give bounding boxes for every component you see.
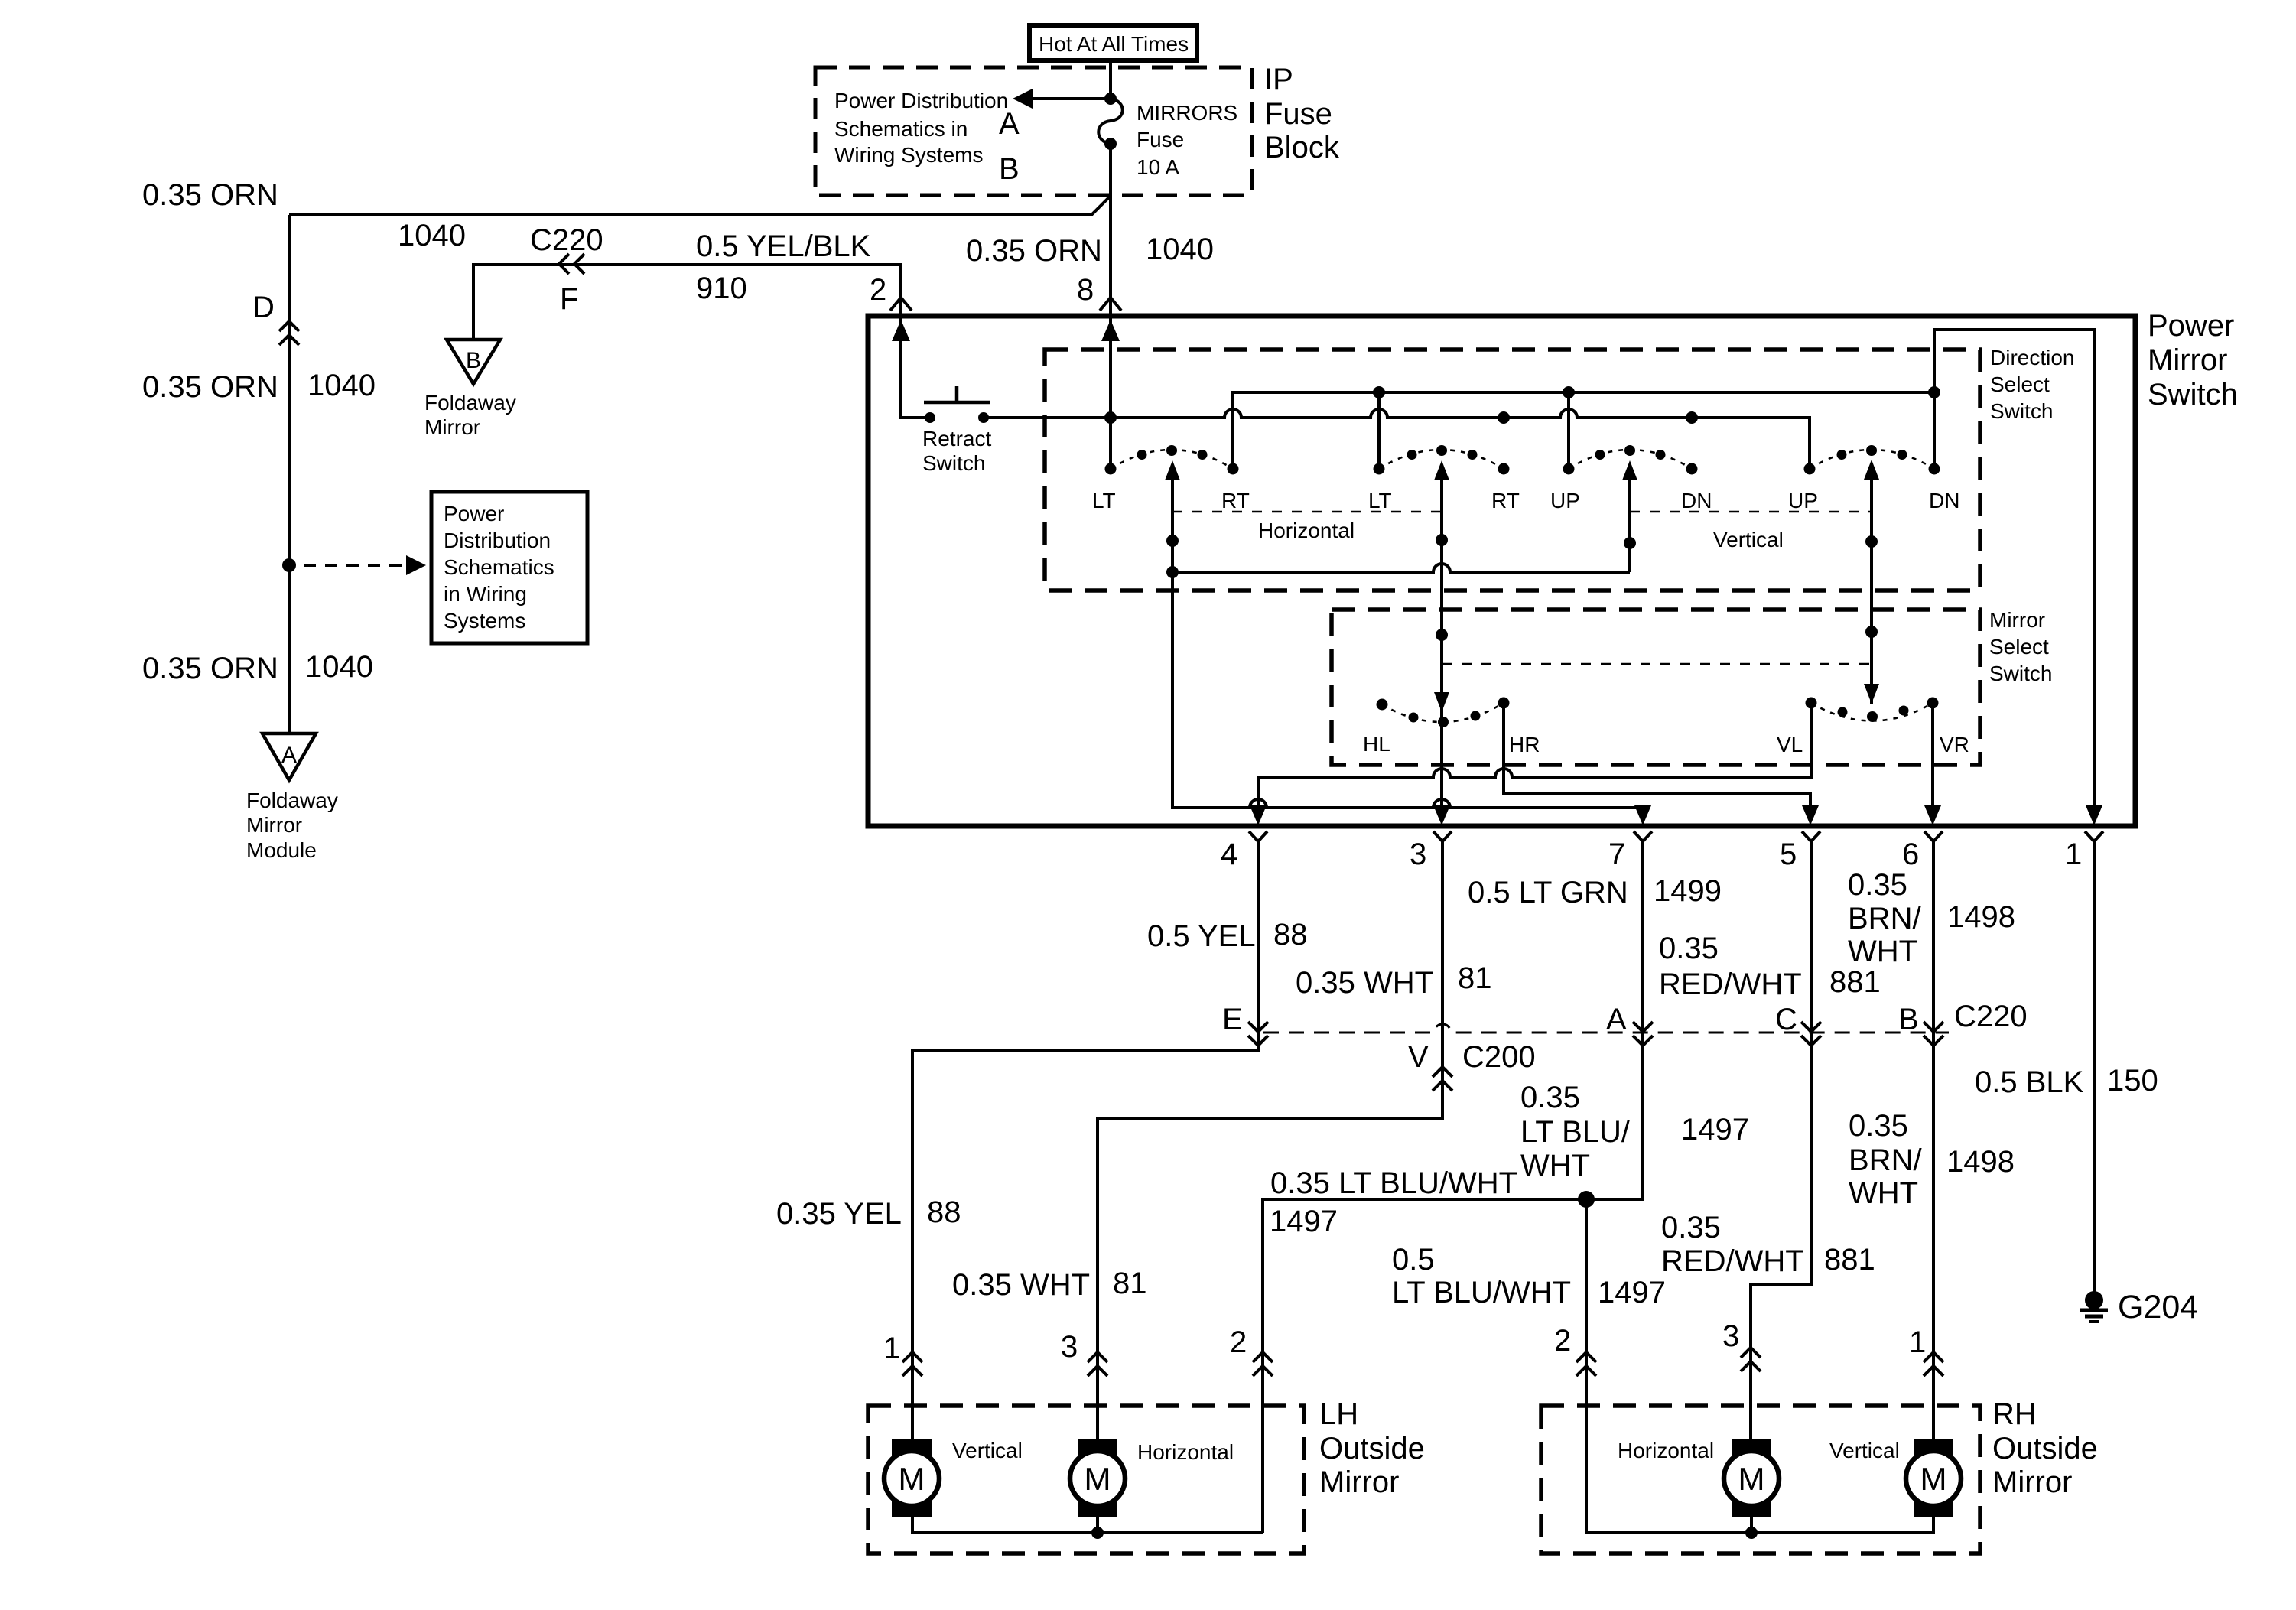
- svg-text:Vertical: Vertical: [1829, 1439, 1900, 1462]
- junction dot RT2 on B+ wire: [1498, 411, 1510, 424]
- svg-text:C220: C220: [1954, 1000, 2028, 1033]
- fuse MIRRORS 10A element (curl): [1098, 99, 1123, 144]
- svg-text:Horizontal: Horizontal: [1258, 519, 1355, 542]
- svg-text:UP: UP: [1550, 489, 1580, 512]
- svg-text:M: M: [1920, 1461, 1947, 1497]
- junction dot pole1 upper: [1166, 535, 1179, 547]
- contact dot RT2: [1498, 463, 1510, 475]
- ground return bus wire (to pin 1 loop): [1233, 330, 2094, 812]
- svg-text:0.5: 0.5: [1392, 1243, 1435, 1277]
- svg-text:Schematics: Schematics: [444, 555, 554, 579]
- wire 0.35 ORN circuit 1040 from node D to IP fuse block (top run): [289, 196, 1111, 215]
- svg-text:0.35: 0.35: [1849, 1109, 1908, 1143]
- svg-text:3: 3: [1722, 1319, 1739, 1353]
- svg-text:Distribution: Distribution: [444, 529, 551, 552]
- mirror select mechanical link dashed: [1442, 663, 1872, 665]
- rocker arc horizontal-2 (LT/RT): [1379, 450, 1504, 469]
- svg-text:Power Distribution: Power Distribution: [834, 89, 1008, 112]
- contact dot VL: [1806, 698, 1817, 709]
- RH Outside Mirror dashed outline: [1541, 1406, 1980, 1553]
- svg-text:Switch: Switch: [2148, 378, 2238, 411]
- svg-text:Mirror: Mirror: [2148, 343, 2227, 377]
- note box Power Distribution Schematics in Wiring Systems: [431, 492, 587, 643]
- svg-text:VR: VR: [1940, 733, 1969, 756]
- contact stub LT2: [1377, 392, 1381, 463]
- svg-text:1497: 1497: [1270, 1205, 1338, 1238]
- svg-text:MIRRORS: MIRRORS: [1137, 101, 1237, 125]
- svg-text:BRN/: BRN/: [1849, 1143, 1922, 1177]
- svg-text:LT: LT: [1368, 489, 1392, 512]
- contact dot HR: [1498, 698, 1510, 709]
- mechanical link dashed (vertical group): [1630, 511, 1872, 513]
- svg-text:G204: G204: [2118, 1289, 2198, 1325]
- svg-text:Foldaway: Foldaway: [246, 789, 338, 812]
- svg-text:2: 2: [1230, 1325, 1247, 1359]
- svg-text:1: 1: [883, 1332, 900, 1365]
- callout box Hot At All Times: [1029, 25, 1197, 60]
- wire pin 4 (0.5 YEL 88) down through C220 E to LH mirror pin 1: [912, 841, 1258, 1439]
- contact dot DN1: [1686, 463, 1698, 475]
- pin 3 connector: [1433, 831, 1452, 841]
- svg-text:B: B: [1898, 1003, 1919, 1036]
- connector triangle B to Foldaway Mirror: [447, 340, 500, 384]
- svg-text:Mirror: Mirror: [424, 415, 480, 439]
- wire pin 7 (0.5 LT GRN / LT BLU-WHT 1497) down through C220 A, across to LH mirror pin 2: [1263, 841, 1643, 1533]
- pole wire 1 (horizontal rocker 1) down to pin 7 run: [1172, 470, 1643, 812]
- connector RH mirror pin 3: [1741, 1348, 1761, 1358]
- connector C200 cavity V: [1433, 1067, 1452, 1077]
- pin 4 connector: [1249, 831, 1267, 841]
- wire MIRRORS fuse output down to switch pin 8: [1109, 144, 1112, 470]
- svg-text:LT BLU/: LT BLU/: [1520, 1115, 1631, 1149]
- svg-text:B: B: [999, 152, 1020, 186]
- svg-text:0.35 ORN: 0.35 ORN: [142, 178, 278, 212]
- svg-text:Vertical: Vertical: [952, 1439, 1023, 1462]
- junction dot LT BLU/WHT splice: [1578, 1191, 1595, 1208]
- wire pin 3 (0.35 WHT 81) through C200 V to LH mirror pin 3: [1098, 841, 1442, 1439]
- svg-text:RT: RT: [1221, 489, 1250, 512]
- svg-text:C200: C200: [1462, 1040, 1536, 1074]
- svg-text:Power: Power: [2148, 309, 2234, 343]
- svg-text:LT BLU/WHT: LT BLU/WHT: [1392, 1276, 1571, 1309]
- wire pin 1 (0.5 BLK 150) to ground G204: [2093, 841, 2096, 1294]
- svg-text:BRN/: BRN/: [1848, 902, 1921, 935]
- svg-text:RH: RH: [1992, 1397, 2037, 1431]
- svg-text:Mirror: Mirror: [1992, 1465, 2072, 1499]
- pin exit arrows at switch box bottom edge: [1250, 805, 1267, 825]
- junction dot pole2 lower: [1436, 629, 1448, 641]
- svg-text:0.35 LT BLU/WHT: 0.35 LT BLU/WHT: [1270, 1166, 1517, 1200]
- svg-text:2: 2: [870, 273, 886, 307]
- connector C220 cavity A: [1633, 1022, 1653, 1032]
- svg-text:2: 2: [1554, 1324, 1571, 1358]
- svg-text:A: A: [1606, 1003, 1627, 1036]
- rocker arc vertical-2 (UP/DN): [1810, 450, 1934, 469]
- svg-text:3: 3: [1061, 1330, 1078, 1364]
- mechanical link dashed (horizontal group): [1172, 511, 1442, 513]
- svg-text:81: 81: [1113, 1267, 1147, 1300]
- wire pin 2 to retract switch: [901, 320, 927, 418]
- svg-text:WHT: WHT: [1849, 1176, 1918, 1210]
- svg-text:0.35: 0.35: [1520, 1081, 1580, 1114]
- svg-text:88: 88: [927, 1195, 961, 1229]
- pin 8 entry arrow: [1101, 320, 1120, 341]
- svg-text:E: E: [1222, 1003, 1243, 1036]
- svg-text:Fuse: Fuse: [1137, 128, 1184, 151]
- svg-text:RED/WHT: RED/WHT: [1659, 968, 1802, 1001]
- svg-text:81: 81: [1458, 961, 1492, 995]
- svg-text:Horizontal: Horizontal: [1137, 1440, 1234, 1464]
- LH vertical motor M: [892, 1439, 932, 1461]
- svg-text:881: 881: [1824, 1243, 1875, 1277]
- wire 0.35 ORN vertical run at left (node D down to foldaway mirror module): [288, 215, 291, 733]
- svg-text:1040: 1040: [307, 369, 376, 402]
- svg-text:0.35 ORN: 0.35 ORN: [142, 652, 278, 685]
- rocker arc mirror select VL/VR: [1811, 703, 1933, 721]
- junction dot UP1 on bus: [1563, 386, 1575, 398]
- Mirror Select Switch dashed outline: [1332, 610, 1980, 765]
- svg-text:1498: 1498: [1947, 900, 2015, 934]
- svg-text:Wiring Systems: Wiring Systems: [834, 143, 983, 167]
- svg-text:0.5 BLK: 0.5 BLK: [1975, 1065, 2084, 1099]
- svg-text:D: D: [252, 291, 275, 324]
- IP Fuse Block dashed outline: [815, 67, 1252, 195]
- svg-text:WHT: WHT: [1520, 1149, 1590, 1182]
- connector triangle A to Foldaway Mirror Module: [262, 733, 316, 780]
- svg-text:6: 6: [1902, 838, 1919, 871]
- svg-text:HR: HR: [1509, 733, 1540, 756]
- connector LH mirror pin 3: [1088, 1352, 1107, 1362]
- svg-text:Fuse: Fuse: [1264, 97, 1332, 131]
- junction dot DN2 on bus: [1928, 386, 1940, 398]
- svg-text:M: M: [1085, 1461, 1111, 1497]
- junction dot LT2 on bus: [1373, 386, 1385, 398]
- LH Outside Mirror dashed outline: [868, 1406, 1304, 1553]
- RH horizontal motor bottom stub: [1750, 1517, 1753, 1533]
- svg-text:DN: DN: [1929, 489, 1959, 512]
- svg-text:1: 1: [2065, 838, 2082, 871]
- junction dot DN1 on B+ wire: [1686, 411, 1698, 424]
- svg-text:Outside: Outside: [1992, 1432, 2098, 1465]
- svg-text:1497: 1497: [1598, 1276, 1666, 1309]
- svg-text:RT: RT: [1491, 489, 1520, 512]
- RH vertical motor M: [1914, 1439, 1953, 1461]
- svg-text:1498: 1498: [1946, 1145, 2015, 1179]
- svg-text:C220: C220: [530, 223, 603, 257]
- connector C220 cavity B: [1924, 1022, 1943, 1032]
- svg-text:4: 4: [1221, 838, 1237, 871]
- contact stub UP1: [1567, 392, 1570, 463]
- rocker arc horizontal-1 (LT/RT): [1111, 450, 1233, 469]
- svg-text:8: 8: [1077, 273, 1094, 307]
- svg-text:0.35: 0.35: [1659, 932, 1719, 965]
- svg-text:1040: 1040: [1146, 233, 1214, 266]
- svg-text:IP: IP: [1264, 63, 1293, 96]
- fuse terminal A dot: [1104, 93, 1117, 105]
- svg-text:B: B: [466, 348, 481, 373]
- Direction Select Switch dashed outline: [1045, 350, 1980, 590]
- svg-text:VL: VL: [1777, 733, 1803, 756]
- junction dot LH common: [1091, 1527, 1104, 1539]
- svg-text:UP: UP: [1788, 489, 1818, 512]
- svg-text:0.35 YEL: 0.35 YEL: [776, 1197, 902, 1231]
- C220 connector dashed line: [1263, 1024, 1949, 1033]
- svg-text:M: M: [1738, 1461, 1765, 1497]
- svg-text:A: A: [281, 743, 297, 768]
- svg-text:Systems: Systems: [444, 609, 525, 633]
- svg-text:Switch: Switch: [1989, 662, 2052, 685]
- svg-text:Foldaway: Foldaway: [424, 391, 516, 415]
- connector C220 cavity C: [1801, 1022, 1821, 1032]
- pole wire 4 (vertical rocker 2 / mirror select VL-VR pole): [1870, 470, 1873, 704]
- arrow to power distribution schematics: [1031, 97, 1111, 100]
- connector LH mirror pin 1: [902, 1352, 922, 1362]
- svg-text:5: 5: [1780, 838, 1797, 871]
- wire from Hot At All Times feed into fuse: [1109, 60, 1112, 99]
- contact dot RT1: [1228, 463, 1239, 475]
- junction dot pin8 feed on B+ wire: [1104, 411, 1117, 424]
- svg-text:RED/WHT: RED/WHT: [1661, 1244, 1804, 1278]
- svg-text:Hot At All Times: Hot At All Times: [1039, 32, 1189, 56]
- svg-text:Mirror: Mirror: [1989, 608, 2045, 632]
- svg-text:0.5 YEL: 0.5 YEL: [1147, 919, 1256, 953]
- svg-text:LH: LH: [1319, 1397, 1358, 1431]
- Power Mirror Switch outline box: [868, 316, 2135, 826]
- wire 0.5 YEL/BLK circuit 910 from C220 F to power mirror switch pin 2: [473, 265, 901, 419]
- svg-text:HL: HL: [1363, 732, 1390, 756]
- wire VR contact straight down to pin 6: [1931, 703, 1934, 812]
- svg-text:DN: DN: [1681, 489, 1712, 512]
- svg-text:Select: Select: [1989, 635, 2049, 659]
- junction splice on ORN wire: [282, 558, 296, 572]
- contact dot UP2: [1804, 463, 1816, 475]
- pin 6 connector: [1924, 831, 1943, 841]
- wire pin 6 (0.35 BRN/WHT 1498) down through C220 B to RH mirror pin 1: [1932, 841, 1935, 1439]
- svg-text:0.35 WHT: 0.35 WHT: [1296, 966, 1433, 1000]
- pin 5 connector: [1802, 831, 1820, 841]
- svg-text:0.5 YEL/BLK: 0.5 YEL/BLK: [696, 229, 871, 263]
- svg-text:7: 7: [1608, 838, 1625, 871]
- svg-text:A: A: [999, 107, 1020, 141]
- junction dot pole2 upper: [1436, 534, 1448, 546]
- svg-text:Module: Module: [246, 838, 317, 862]
- wire VL contact down and across to pin 4 (with hops): [1258, 703, 1811, 812]
- LH mirror motor common wire: [912, 1517, 1263, 1533]
- contact dot LT2: [1374, 463, 1385, 475]
- dashed reference arrow to Power Distribution note box: [304, 564, 410, 567]
- connector RH mirror pin 2: [1576, 1352, 1596, 1362]
- pin 8 connector chevron: [1100, 298, 1121, 311]
- svg-text:1499: 1499: [1654, 874, 1722, 908]
- RH horizontal motor M: [1732, 1439, 1771, 1461]
- svg-text:881: 881: [1829, 965, 1881, 999]
- connector D double chevron: [279, 321, 299, 331]
- rocker arc mirror select HL/HR: [1382, 703, 1504, 722]
- junction dot pole1 link: [1166, 566, 1179, 578]
- svg-text:Direction: Direction: [1990, 346, 2074, 369]
- svg-text:0.5 LT GRN: 0.5 LT GRN: [1468, 876, 1628, 909]
- svg-text:C: C: [1775, 1003, 1797, 1036]
- svg-text:0.35 ORN: 0.35 ORN: [966, 234, 1102, 268]
- svg-text:3: 3: [1410, 838, 1426, 871]
- svg-text:1040: 1040: [305, 650, 373, 684]
- junction dot pole4 upper: [1865, 535, 1878, 548]
- connector C220 cavity F double chevron: [559, 254, 569, 274]
- connector RH mirror pin 1: [1924, 1352, 1943, 1362]
- retract switch contacts and lever: [925, 412, 935, 423]
- svg-text:LT: LT: [1092, 489, 1116, 512]
- svg-text:Power: Power: [444, 502, 504, 525]
- svg-text:Block: Block: [1264, 131, 1340, 164]
- contact dot LT1: [1105, 463, 1117, 475]
- wire B+ feed from retract switch across direction contacts (with hops): [984, 409, 1810, 463]
- svg-text:Switch: Switch: [1990, 399, 2053, 423]
- contact dot DN2: [1929, 463, 1940, 475]
- svg-text:910: 910: [696, 272, 747, 305]
- svg-text:WHT: WHT: [1848, 935, 1917, 968]
- svg-text:Select: Select: [1990, 372, 2050, 396]
- pin 7 connector: [1634, 831, 1652, 841]
- junction dot pole4 lower: [1865, 626, 1878, 638]
- svg-text:1040: 1040: [398, 219, 466, 252]
- svg-text:Mirror: Mirror: [246, 813, 302, 837]
- rocker arc vertical-1 (UP/DN): [1569, 450, 1692, 469]
- svg-text:F: F: [560, 282, 578, 316]
- ground G204 symbol: [2085, 1291, 2103, 1309]
- svg-text:1: 1: [1909, 1325, 1926, 1359]
- pole wire 2 (horizontal rocker 2 / mirror select HL-HR pole) straight to pin 3: [1440, 470, 1443, 812]
- pin 2 entry arrow: [892, 320, 910, 341]
- svg-text:0.35: 0.35: [1848, 868, 1907, 902]
- contact stub DN2: [1933, 392, 1936, 463]
- svg-text:Mirror: Mirror: [1319, 1465, 1399, 1499]
- wire pin 5 (0.35 RED/WHT 881) down through C220 C to RH mirror pin 3: [1751, 841, 1811, 1439]
- svg-text:Switch: Switch: [922, 451, 985, 475]
- pin 1 connector: [2085, 831, 2103, 841]
- svg-text:0.35 ORN: 0.35 ORN: [142, 370, 278, 404]
- pin 2 connector chevron: [890, 298, 912, 311]
- svg-text:Vertical: Vertical: [1713, 528, 1784, 551]
- pole link wire y748 from pole1 to pole3: [1172, 564, 1630, 572]
- svg-text:1497: 1497: [1681, 1113, 1749, 1147]
- svg-text:Schematics in: Schematics in: [834, 117, 968, 141]
- RH mirror motor common wire junction dot: [1745, 1527, 1758, 1539]
- svg-text:M: M: [899, 1461, 925, 1497]
- svg-text:10 A: 10 A: [1137, 155, 1179, 179]
- svg-text:Horizontal: Horizontal: [1618, 1439, 1714, 1462]
- wire HR contact down and across to pin 5: [1504, 703, 1810, 812]
- contact dot HL: [1377, 699, 1388, 711]
- svg-text:Retract: Retract: [922, 427, 991, 450]
- pole2 arrow into HL/HR rocker: [1434, 692, 1449, 712]
- contact dot UP1: [1563, 463, 1575, 475]
- svg-text:0.35 WHT: 0.35 WHT: [952, 1268, 1090, 1302]
- LH horizontal motor bottom stub: [1096, 1517, 1099, 1533]
- svg-text:in Wiring: in Wiring: [444, 582, 527, 606]
- connector C220 cavity E: [1248, 1022, 1268, 1032]
- junction dot pole3: [1624, 537, 1636, 549]
- wire splice down to RH mirror pin 2: [1586, 1199, 1933, 1533]
- svg-text:Outside: Outside: [1319, 1432, 1425, 1465]
- fuse terminal B dot: [1104, 138, 1117, 150]
- contact dot VR: [1927, 698, 1939, 709]
- LH horizontal motor M: [1078, 1439, 1117, 1461]
- svg-text:V: V: [1408, 1040, 1429, 1074]
- pole wire 3 (vertical rocker 1): [1628, 470, 1631, 572]
- svg-text:88: 88: [1273, 918, 1308, 951]
- svg-text:0.35: 0.35: [1661, 1211, 1721, 1244]
- svg-text:150: 150: [2107, 1064, 2158, 1098]
- connector LH mirror pin 2: [1253, 1352, 1273, 1362]
